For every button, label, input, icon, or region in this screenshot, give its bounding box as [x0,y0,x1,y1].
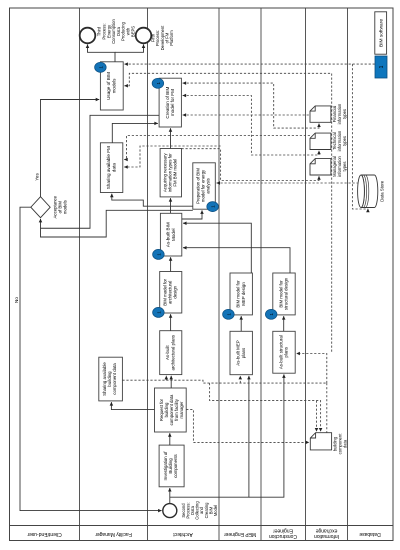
svg-text:Architect: Architect [173,531,193,537]
badge 1 on BIM model for structural design [265,309,277,319]
wire Yes gateway to Usage of BIM models [41,100,100,197]
svg-text:BEPS: BEPS [130,26,135,37]
dashed Creation to Financial doc elbow [183,83,319,128]
svg-text:Client/End-user: Client/End-user [27,531,62,537]
svg-text:manager: manager [179,401,184,419]
task: Investigation of Building components [159,445,184,487]
gateway: Acceptance of BIM models [31,197,50,218]
wire BIM model MEP design to As-built BIM Model [183,223,251,273]
wire Preperation to gateway [41,210,193,237]
svg-text:1: 1 [269,313,274,316]
wire Request to Sharing building component data [111,402,154,410]
wire As-built architectural plans to BIM model for architectural design [170,314,172,331]
svg-text:As-built BIM: As-built BIM [166,222,171,247]
svg-text:components: components [173,454,178,477]
svg-text:No: No [14,297,19,303]
svg-text:types: types [342,109,347,119]
task: BIM model for MEP design [230,273,252,315]
svg-text:Engineer: Engineer [273,528,293,534]
badge 1 on Usage of BIM models [95,62,107,72]
wire BIM model structural design to As-built BIM Model [183,248,290,273]
task: BIM model for architectural design [160,272,182,314]
wire BIM model arch design to As-built BIM Model [170,257,172,271]
wire start to Investigation [169,488,171,504]
task: Request for building component data from facility manager [155,388,187,432]
wire branch start to As-built structural plans [249,374,284,497]
svg-text:data: data [112,163,117,172]
document: Financial information types [310,106,331,122]
wire Usage split to Fifth Process end [115,45,144,53]
svg-text:models: models [112,78,117,94]
start event label: Second Process: Data Collecting and Creating BIM Model [181,501,218,520]
lane label strip divider [10,525,394,527]
badge 1 on As-built BIM Model [153,249,165,259]
task: Creation of BIM model for FM [159,78,181,127]
lane boundary Information exchange [305,8,307,541]
end event: Third Process [80,28,96,44]
wire As-built BIM Model to Preperation [182,210,202,219]
dashed branch to doc via lx 149.4 [210,383,321,431]
svg-text:Creation of BIM: Creation of BIM [165,86,170,118]
lane label Information exchange [314,528,339,540]
label Financial information types [332,103,347,124]
svg-text:Sharing available FM: Sharing available FM [106,146,111,189]
dashed Creation to Financial doc straight [183,114,310,116]
wire Investigation to Request [169,433,171,445]
lane boundary FM [79,8,81,541]
dashed Creation to Technical doc elbow [183,96,319,156]
end event: Fifth Process [136,28,152,44]
wire As-built structural plans to BIM model for structural design [283,316,285,331]
task: Acquiring necessary information types for FM BIM model [160,149,181,197]
svg-text:BIM software: BIM software [379,19,385,47]
svg-text:structural design: structural design [284,277,289,310]
wire As-built BIM Model to Acquiring [170,198,172,213]
dashed Technical doc to Sharing available FM data [124,136,310,160]
dashed trunk down from Sharing building component data [166,380,326,383]
svg-text:types: types [342,136,347,146]
svg-text:architectural plans: architectural plans [170,334,175,370]
svg-text:exchange: exchange [315,528,337,534]
label Managerial information types [332,155,347,176]
svg-text:Facility Manager: Facility Manager [95,531,132,537]
data store: Data Store [358,175,378,208]
dashed web row to Usage (building component network) [124,73,331,353]
svg-text:MEP design: MEP design [241,282,246,306]
wire Request to As-built architectural plans [170,376,172,388]
task: Usage of BIM models [100,62,123,110]
wire Preperation to Sharing available FM data [112,194,193,207]
label building component data [333,433,348,455]
svg-text:design: design [173,285,178,298]
task: Sharing available FM data [100,143,122,193]
svg-text:Usage of BIM: Usage of BIM [106,72,111,100]
svg-text:Platform: Platform [169,30,174,46]
lane label Construction Engineer [269,528,297,540]
svg-text:FM BIM model: FM BIM model [172,159,177,187]
svg-text:1: 1 [156,253,161,256]
svg-text:analysis: analysis [206,178,211,194]
legend blue box 1 [375,56,387,78]
svg-text:Data Store: Data Store [380,180,385,202]
wire No gateway to start event [20,207,162,510]
document: Technical information types [310,133,331,149]
dashed tap to As-built MEP plans [239,376,241,383]
dashed branch to Data Store [352,64,368,209]
dashed short doc feed at ly 316.5 [316,401,318,432]
task: As-built BIM Model [160,213,181,256]
wire As-built MEP plans to BIM model for MEP design [240,316,242,331]
wire Sharing available FM data to Creation of BIM model for FM [112,123,158,142]
lane boundary Architect [147,8,149,541]
svg-text:models: models [63,200,68,214]
document: Managerial information types [310,159,331,175]
badge 1 on BIM model for architectural design [153,307,165,317]
task: BIM model for structural design [273,273,295,315]
svg-text:Model: Model [171,228,176,241]
wire Acquiring to Creation of BIM model for FM [170,128,172,148]
svg-text:1: 1 [156,82,161,85]
badge 1 on Creation of BIM model for FM [152,78,164,88]
wire Usage to end events split [88,45,116,62]
lane boundary MEP [218,8,220,541]
gateway label [53,195,68,218]
svg-text:MEP Engineer: MEP Engineer [224,531,256,537]
lane boundary Database [347,8,349,541]
svg-text:component data: component data [112,363,117,395]
svg-text:plans: plans [241,347,246,358]
end event label: Third Process: Energy Consumption Data Producing with BEPS [97,18,136,43]
dashed info types to Sharing available FM data second [124,146,220,167]
label Technical information types [332,130,347,151]
task: As-built structural plans [273,331,295,373]
start event: Second Process [163,504,177,518]
svg-text:1: 1 [211,205,216,208]
svg-text:1: 1 [156,311,161,314]
task: As-built MEP plans [230,331,252,374]
svg-text:types: types [342,161,347,171]
document: building component data [310,433,331,450]
svg-text:1: 1 [226,313,231,316]
wire Creation to gateway [41,115,160,228]
svg-text:Database: Database [359,531,381,537]
svg-text:1: 1 [98,66,103,69]
task: Sharing available building component data [99,357,123,401]
dashed wire Sharing building component data to As-built architectural plans [122,376,166,380]
dashed Acquiring to Managerial doc [182,149,320,181]
svg-text:1: 1 [379,65,385,68]
svg-text:Yes: Yes [35,173,40,181]
dashed wire Request to building component data doc [186,410,309,443]
svg-text:Model: Model [213,505,218,516]
svg-text:model for FM: model for FM [170,89,175,116]
dashed Preperation to Data Store vertical [217,182,358,184]
lane boundary Construction [260,8,262,541]
dashed wire legend/BIM software to Usage of BIM models [124,63,374,65]
legend box: BIM software [375,12,387,54]
badge 1 on BIM model for MEP design [223,309,235,319]
task: As-built architectural plans [160,331,182,375]
end event label: Fifth Process: Development of FM Platform [151,25,174,51]
badge 1 on Preperation box [207,202,219,212]
task: Preperation of BIM model for energy analysis [193,163,216,209]
dashed junction to As-built structural plans [296,354,326,384]
svg-text:plans: plans [284,346,289,357]
dashed doc feed along ly 326.8 to building component data doc [326,383,328,433]
wire branch start to As-built MEP plans [170,376,249,497]
svg-text:data: data [343,439,348,448]
